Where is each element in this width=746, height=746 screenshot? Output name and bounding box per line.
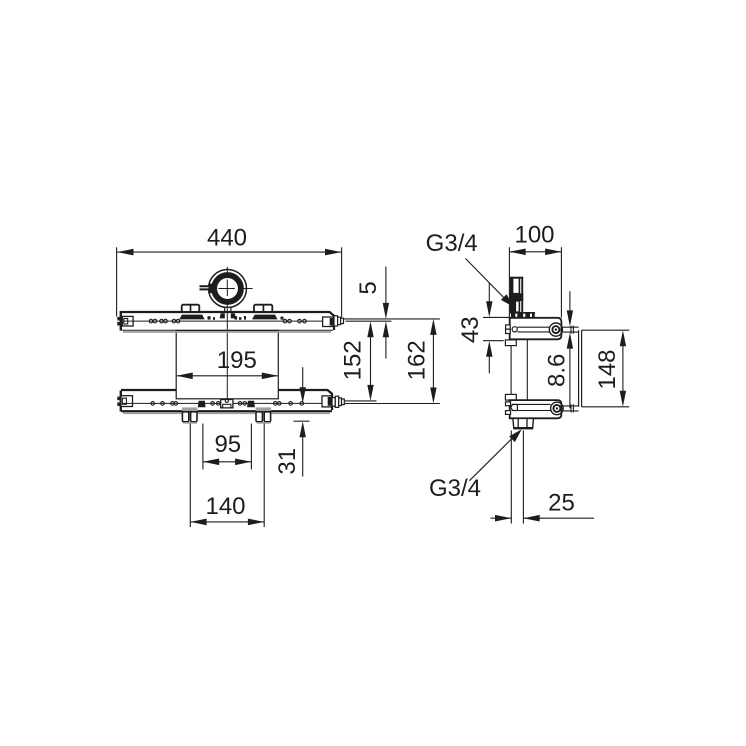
svg-text:95: 95: [214, 431, 241, 458]
center bracket under plate: [221, 399, 233, 408]
svg-text:152: 152: [339, 340, 366, 380]
G3/4 hex nut below bottom rail: [513, 418, 534, 429]
extension line D (bottom long): [345, 403, 440, 405]
svg-text:31: 31: [274, 448, 301, 475]
top rail holes: [149, 319, 306, 323]
top rail side view: [506, 318, 563, 340]
svg-text:43: 43: [457, 316, 484, 343]
svg-text:195: 195: [217, 347, 257, 374]
vertical centerline: [226, 267, 228, 404]
clamp wedge right on bottom rail: [247, 401, 255, 408]
dimension 25: [490, 431, 594, 524]
dimension 100: [509, 222, 561, 320]
pipe clamp ring: [200, 270, 253, 308]
dimension 140: [190, 424, 264, 528]
serrated nut teeth row: [511, 312, 535, 318]
pipe stub to plate bottom: [563, 404, 579, 412]
svg-text:G3/4: G3/4: [426, 230, 478, 257]
hex nut right on top rail: [252, 305, 277, 320]
svg-text:25: 25: [548, 489, 575, 516]
dimension 43: [457, 282, 509, 373]
clamp wedge left on bottom rail: [198, 401, 206, 408]
dimension 195: [176, 347, 278, 379]
top rail right stub: [334, 316, 344, 326]
dimension 8.6: [543, 291, 573, 408]
bottom rail side view: [506, 400, 564, 418]
dimension 95: [203, 424, 252, 470]
valve fitting right under bottom rail: [256, 407, 271, 423]
svg-text:162: 162: [403, 340, 430, 380]
hex nut left on top rail: [179, 305, 204, 320]
label G3/4 bottom: [429, 429, 522, 502]
svg-text:148: 148: [594, 349, 621, 389]
svg-text:8.6: 8.6: [543, 354, 570, 387]
top rail: [117, 311, 344, 332]
bottom rail: [117, 390, 344, 413]
svg-text:5: 5: [355, 281, 382, 294]
ring stem: [220, 307, 236, 318]
top rail surface marks: [208, 316, 284, 320]
wall plate edge-on: [579, 330, 582, 407]
dimension 440: [117, 225, 342, 318]
svg-text:440: 440: [207, 225, 247, 252]
bottom rail right stub: [332, 396, 344, 407]
dimension 162: [403, 319, 436, 404]
dimension 5: [355, 267, 389, 359]
dimension 31: [274, 367, 310, 476]
extension line A (rail top level): [343, 318, 440, 320]
inlet pipe (chimney): [510, 277, 523, 314]
extension line B (pipe axis level): [346, 320, 392, 322]
svg-text:G3/4: G3/4: [429, 475, 481, 502]
pipe stub to plate top: [563, 326, 579, 334]
frame verticals between rails: [505, 339, 527, 400]
clamp screw: [200, 284, 214, 294]
dimension 148: [582, 330, 630, 407]
label G3/4 top: [426, 230, 514, 307]
bottom rail holes: [151, 402, 304, 406]
valve fitting left under bottom rail: [182, 407, 197, 423]
svg-text:100: 100: [514, 222, 554, 249]
mounting plate: [176, 331, 278, 399]
dimension 152: [339, 321, 373, 401]
svg-text:140: 140: [205, 493, 245, 520]
extension line C (bottom short): [345, 400, 377, 402]
